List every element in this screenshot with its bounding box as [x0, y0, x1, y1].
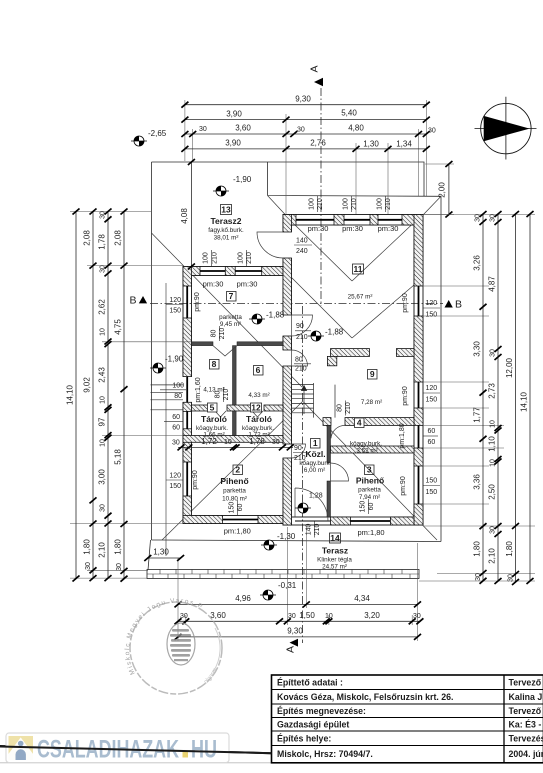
svg-text:-1,90: -1,90	[165, 355, 184, 364]
svg-text:pm:1,60: pm:1,60	[195, 377, 202, 402]
section mark A bottom	[285, 639, 299, 653]
svg-text:1,78: 1,78	[98, 234, 107, 250]
svg-text:150: 150	[228, 502, 235, 514]
svg-text:Pihenő: Pihenő	[356, 476, 384, 486]
svg-text:30: 30	[508, 574, 515, 582]
svg-text:2,00: 2,00	[438, 182, 447, 198]
svg-text:Miskolc, Hrsz: 70494/7.: Miskolc, Hrsz: 70494/7.	[277, 749, 373, 759]
svg-text:6,00 m²: 6,00 m²	[304, 467, 325, 474]
main left wall piers	[283, 215, 292, 233]
svg-text:pm:30: pm:30	[342, 224, 363, 233]
main top wall piers	[283, 215, 296, 226]
svg-text:30: 30	[288, 613, 296, 620]
left wing left wall piers	[183, 267, 192, 287]
svg-text:210: 210	[246, 252, 253, 264]
svg-text:24,57 m²: 24,57 m²	[322, 564, 347, 571]
svg-text:1: 1	[313, 438, 318, 448]
elevation markers	[131, 129, 344, 600]
svg-text:-1,88: -1,88	[266, 311, 285, 320]
bottom extension lines	[178, 527, 418, 641]
left wall misc labels	[160, 377, 202, 402]
room 6 label block	[248, 365, 269, 399]
svg-text:A: A	[309, 65, 321, 72]
pihenő2 top dim row 30/1,72/10/1,78/30	[172, 437, 294, 451]
svg-text:1,30: 1,30	[363, 139, 379, 148]
svg-text:3,00: 3,00	[98, 469, 107, 485]
svg-text:10: 10	[490, 459, 497, 467]
room 11 label block	[348, 264, 373, 301]
svg-text:60: 60	[237, 504, 244, 512]
roof diagonal hips	[152, 196, 442, 541]
svg-text:210: 210	[345, 402, 352, 414]
svg-text:5,18: 5,18	[114, 449, 123, 465]
svg-text:10: 10	[325, 613, 333, 620]
left wing bottom wall piers	[183, 516, 223, 524]
svg-text:pm:90: pm:90	[194, 292, 201, 312]
svg-text:9,30: 9,30	[287, 626, 303, 635]
left extension lines	[70, 212, 191, 579]
svg-text:60: 60	[428, 428, 436, 435]
svg-text:köagy.burk.: köagy.burk.	[350, 441, 382, 448]
right chain 1	[473, 211, 487, 584]
svg-text:150: 150	[426, 478, 438, 485]
door opening gaps erased on main left wall	[182, 232, 293, 458]
svg-text:60: 60	[172, 414, 180, 421]
room 4 label block	[350, 418, 382, 455]
interior stair	[292, 383, 336, 418]
svg-text:30: 30	[490, 214, 497, 222]
svg-text:4,33 m²: 4,33 m²	[248, 392, 269, 399]
rotated window size pairs (wing top wall)	[160, 196, 440, 538]
svg-text:30: 30	[475, 214, 482, 222]
svg-text:1,72 m²: 1,72 m²	[248, 432, 269, 439]
svg-text:Építés helye:: Építés helye:	[277, 734, 331, 744]
svg-text:parketta: parketta	[219, 314, 242, 321]
svg-text:1,77: 1,77	[473, 407, 482, 423]
svg-text:210: 210	[295, 366, 307, 373]
1,30 dim bottom-left step	[144, 548, 184, 562]
svg-text:4,75: 4,75	[114, 319, 123, 335]
svg-text:pm:1,80: pm:1,80	[399, 423, 406, 448]
svg-text:9,45 m²: 9,45 m²	[220, 321, 241, 328]
room 8 label block	[203, 359, 224, 394]
svg-text:3,20: 3,20	[364, 611, 380, 620]
svg-text:90: 90	[296, 323, 304, 330]
bottom dim row 3: 9,30	[175, 626, 422, 640]
svg-text:3,90: 3,90	[226, 109, 242, 118]
svg-text:30: 30	[428, 127, 436, 134]
left chain 4: 2,08/4,75/5,18/1,80/30	[114, 209, 128, 582]
room 3 Pihenő label block	[356, 465, 384, 502]
partition F	[331, 446, 415, 453]
partition D	[323, 418, 331, 426]
terasz2 door arc on main left wall top (140/240)	[257, 232, 283, 258]
bottom dim row 1: 4,96/4,34	[175, 594, 422, 608]
north compass	[475, 97, 537, 160]
svg-text:-1,90: -1,90	[233, 175, 252, 184]
room text blocks	[196, 205, 384, 571]
svg-text:30: 30	[490, 526, 497, 534]
svg-text:Terasz: Terasz	[322, 546, 348, 556]
svg-text:30: 30	[172, 439, 180, 446]
svg-text:pm:90: pm:90	[402, 386, 409, 406]
svg-text:1,50: 1,50	[299, 611, 315, 620]
svg-text:kőagy.burk: kőagy.burk	[299, 460, 330, 467]
svg-text:10,80 m²: 10,80 m²	[222, 496, 247, 503]
svg-text:5: 5	[210, 402, 215, 412]
svg-text:2: 2	[235, 465, 240, 475]
svg-text:10: 10	[100, 396, 107, 404]
svg-text:120: 120	[169, 297, 181, 304]
4,08 vertical dim at terasz2	[180, 159, 195, 270]
svg-text:pm:90: pm:90	[400, 476, 407, 496]
top dim row 4: 3,90/2,76/1,30/1,34	[181, 139, 429, 152]
svg-text:30: 30	[100, 504, 107, 512]
svg-text:30: 30	[199, 126, 207, 133]
svg-text:150: 150	[169, 483, 181, 490]
svg-text:pm:1,80: pm:1,80	[224, 526, 251, 535]
svg-text:pm:90: pm:90	[402, 293, 409, 313]
svg-text:Építés megnevezése:: Építés megnevezése:	[277, 706, 366, 716]
room 1 Közl label block	[299, 438, 330, 474]
room 2 Pihenő label block	[220, 465, 248, 503]
left chain 3: wall faces	[98, 209, 112, 582]
svg-text:3,36: 3,36	[473, 474, 482, 490]
svg-text:97: 97	[98, 417, 107, 426]
svg-text:14,10: 14,10	[520, 391, 529, 412]
svg-text:1,28: 1,28	[309, 493, 323, 500]
svg-text:pm:30: pm:30	[203, 280, 224, 289]
stamp (faint circular seal)	[124, 597, 222, 694]
svg-text:fagy.kő.burk.: fagy.kő.burk.	[208, 227, 244, 234]
exterior steps left	[151, 385, 184, 410]
svg-text:2,10: 2,10	[488, 548, 497, 564]
fireplace stubs	[331, 349, 370, 357]
room 7 label block	[219, 291, 242, 328]
svg-text:140: 140	[305, 523, 312, 535]
svg-text:210: 210	[314, 523, 321, 535]
140/210 rotated pair at közl bottom	[305, 522, 321, 538]
section line A-A (dash-dot vertical with jog at B)	[303, 88, 322, 643]
door labels main left wall	[294, 238, 312, 256]
svg-text:3: 3	[367, 465, 372, 475]
svg-text:-0,31: -0,31	[278, 581, 297, 590]
room 14 Terasz label block	[317, 533, 352, 571]
svg-text:4,96: 4,96	[235, 594, 251, 603]
svg-text:30: 30	[413, 613, 421, 620]
right chain 2	[488, 211, 502, 584]
svg-text:3,26: 3,26	[473, 255, 482, 271]
svg-text:120: 120	[169, 473, 181, 480]
svg-text:100: 100	[172, 382, 184, 389]
svg-text:30: 30	[116, 563, 123, 571]
window glass lines	[187, 220, 418, 521]
svg-text:7,28 m²: 7,28 m²	[361, 399, 382, 406]
svg-text:Tervező: Tervező	[509, 706, 542, 716]
left chain 1: 14,10	[66, 209, 80, 582]
svg-text:30: 30	[180, 613, 188, 620]
svg-text:60: 60	[368, 503, 375, 511]
svg-text:-1,30: -1,30	[277, 532, 296, 541]
svg-text:13: 13	[221, 205, 231, 215]
svg-text:Tervezés: Tervezés	[509, 734, 543, 744]
svg-text:B: B	[455, 299, 462, 311]
svg-text:1,30: 1,30	[153, 548, 169, 557]
svg-text:80: 80	[337, 404, 344, 412]
svg-text:1,80: 1,80	[83, 539, 92, 555]
svg-text:2,76: 2,76	[310, 139, 326, 148]
section mark B right	[445, 299, 463, 311]
svg-text:150: 150	[359, 501, 366, 513]
svg-text:3,60: 3,60	[210, 611, 226, 620]
svg-text:30: 30	[100, 211, 107, 219]
svg-text:10: 10	[100, 328, 107, 336]
svg-text:pm:30: pm:30	[237, 280, 258, 289]
svg-text:Tároló: Tároló	[246, 414, 272, 424]
svg-text:30: 30	[297, 127, 305, 134]
svg-text:2,43: 2,43	[98, 367, 107, 383]
svg-text:9,02: 9,02	[83, 377, 92, 393]
svg-text:2,73: 2,73	[488, 383, 497, 399]
left chain 2: 2,08/9,02/1,80/30	[83, 209, 97, 582]
svg-text:30: 30	[475, 573, 482, 581]
svg-text:Kalina J: Kalina J	[509, 692, 543, 702]
left wall window labels 120/150	[166, 292, 201, 314]
svg-text:9,30: 9,30	[295, 95, 311, 104]
page bottom rule	[0, 746, 272, 753]
svg-text:60: 60	[428, 439, 436, 446]
svg-text:11: 11	[354, 264, 363, 274]
svg-text:140: 140	[296, 238, 308, 245]
150/60 rotated pairs bottom windows	[228, 500, 244, 515]
svg-text:30: 30	[490, 349, 497, 357]
svg-text:30: 30	[100, 265, 107, 273]
svg-text:pm:30: pm:30	[378, 224, 399, 233]
svg-text:3,30: 3,30	[473, 341, 482, 357]
svg-text:9: 9	[370, 369, 375, 379]
room 9 label block	[361, 369, 382, 406]
80/210 rotated pairs interior doors	[211, 326, 227, 341]
wall outlines	[183, 215, 423, 526]
svg-text:7,94 m²: 7,94 m²	[359, 494, 380, 501]
svg-text:2004. jún: 2004. jún	[509, 749, 543, 759]
svg-text:60: 60	[172, 424, 180, 431]
svg-text:pm:30: pm:30	[308, 224, 329, 233]
svg-text:Tároló: Tároló	[201, 414, 227, 424]
svg-text:120: 120	[426, 385, 438, 392]
svg-text:2,08: 2,08	[83, 230, 92, 246]
top dim row 1: 9,30	[181, 95, 429, 108]
svg-text:3,90: 3,90	[225, 139, 241, 148]
svg-text:parketta: parketta	[358, 487, 381, 494]
svg-text:pm:90: pm:90	[192, 470, 199, 490]
svg-text:A: A	[285, 646, 297, 653]
svg-text:7: 7	[229, 291, 234, 301]
svg-text:Terasz2: Terasz2	[210, 216, 241, 226]
room 5 Tároló label block	[196, 402, 228, 438]
room 13 Terasz2 label block	[208, 205, 244, 242]
svg-text:100: 100	[309, 198, 316, 210]
right extension lines	[419, 215, 535, 582]
svg-text:8: 8	[212, 359, 217, 369]
svg-text:Közl.: Közl.	[305, 449, 325, 459]
svg-text:150: 150	[426, 397, 438, 404]
svg-text:90: 90	[294, 445, 302, 452]
svg-text:1,10: 1,10	[488, 436, 497, 452]
door swing arcs	[213, 315, 349, 521]
svg-text:10: 10	[100, 439, 107, 447]
bottom dim row 2	[175, 611, 424, 624]
svg-text:6: 6	[256, 365, 261, 375]
svg-text:1,66 m²: 1,66 m²	[203, 432, 224, 439]
svg-text:1,80: 1,80	[505, 541, 514, 557]
svg-text:30: 30	[272, 439, 280, 446]
svg-text:210: 210	[385, 198, 392, 210]
svg-text:14,10: 14,10	[66, 384, 75, 405]
svg-text:parketta: parketta	[223, 488, 246, 495]
svg-text:4,08: 4,08	[180, 208, 189, 224]
svg-text:1,80: 1,80	[473, 541, 482, 557]
right wall window labels	[402, 293, 440, 318]
svg-text:80: 80	[295, 357, 303, 364]
section line B-B (dash-dot horizontal)	[150, 303, 443, 305]
top dim row 3: 30/3,60/30/4,80/30	[181, 124, 435, 137]
title block table	[272, 675, 543, 763]
main right wall piers	[414, 215, 423, 287]
black rule over watermark	[0, 747, 272, 754]
brick retaining strip	[147, 570, 419, 579]
svg-text:Gazdasági épület: Gazdasági épület	[277, 720, 349, 730]
svg-text:4,34: 4,34	[354, 594, 370, 603]
svg-text:Kovács Géza, Miskolc, Felsőruz: Kovács Géza, Miskolc, Felsőruzsin krt. 2…	[277, 692, 454, 702]
svg-text:100: 100	[203, 252, 210, 264]
svg-text:210: 210	[296, 334, 308, 341]
svg-text:3,52 m²: 3,52 m²	[356, 448, 377, 455]
svg-text:Pihenő: Pihenő	[220, 476, 248, 486]
svg-text:150: 150	[426, 312, 438, 319]
svg-text:HU: HU	[191, 736, 217, 764]
svg-text:10: 10	[224, 439, 232, 446]
svg-text:2,08: 2,08	[114, 230, 123, 246]
svg-text:240: 240	[296, 248, 308, 255]
svg-text:120: 120	[426, 300, 438, 307]
svg-text:1,34: 1,34	[396, 139, 412, 148]
svg-text:100: 100	[237, 252, 244, 264]
svg-text:B: B	[130, 295, 137, 307]
svg-text:Tervező: Tervező	[509, 678, 542, 688]
top dim row 2: 3,90 / 5,40	[181, 109, 429, 123]
svg-text:-1,88: -1,88	[325, 328, 344, 337]
svg-text:Klinker tégla: Klinker tégla	[317, 557, 352, 564]
section mark B left	[130, 295, 148, 307]
svg-text:4,80: 4,80	[348, 124, 364, 133]
svg-text:pm:1,80: pm:1,80	[357, 528, 384, 537]
svg-text:4,13 m²: 4,13 m²	[203, 387, 224, 394]
watermark csaladihazak.hu	[6, 733, 229, 764]
right chain 3: 12,00/1,80/30	[505, 211, 519, 585]
svg-text:14: 14	[330, 533, 340, 543]
svg-text:80: 80	[211, 330, 218, 338]
interior partition B (taroló top)	[192, 405, 216, 411]
right chain 4: 14,10	[520, 211, 534, 584]
svg-text:210: 210	[219, 328, 226, 340]
svg-text:3,60: 3,60	[235, 124, 251, 133]
svg-text:25,67 m²: 25,67 m²	[348, 294, 373, 301]
eaves outline	[148, 162, 441, 570]
svg-text:4,87: 4,87	[488, 276, 497, 292]
svg-text:150: 150	[426, 489, 438, 496]
svg-text:150: 150	[169, 308, 181, 315]
main bottom wall piers	[331, 517, 351, 525]
thin solid partitions	[192, 342, 331, 517]
svg-text:Ka: É3 -: Ka: É3 -	[509, 720, 542, 730]
svg-text:210: 210	[351, 198, 358, 210]
svg-text:80: 80	[174, 393, 182, 400]
svg-text:4: 4	[357, 418, 362, 428]
svg-text:2,10: 2,10	[98, 542, 107, 558]
svg-text:10: 10	[490, 420, 497, 428]
interior partition C (taroló bottom)	[183, 436, 283, 443]
hatched piers: left wing top wall	[183, 215, 423, 526]
svg-text:210: 210	[211, 252, 218, 264]
extension lines top	[185, 100, 454, 215]
svg-text:12,00: 12,00	[505, 357, 514, 378]
svg-text:12: 12	[251, 402, 261, 412]
svg-text:2,62: 2,62	[98, 299, 107, 315]
svg-text:30: 30	[85, 562, 92, 570]
svg-text:2,50: 2,50	[488, 484, 497, 500]
svg-text:100: 100	[343, 198, 350, 210]
svg-text:100: 100	[377, 198, 384, 210]
rotated pairs (main top wall)	[309, 196, 325, 212]
svg-text:38,01 m²: 38,01 m²	[214, 235, 239, 242]
svg-text:210: 210	[317, 198, 324, 210]
2,00 vertical dim top right	[438, 161, 453, 218]
section mark A top	[309, 65, 324, 86]
svg-text:5,40: 5,40	[341, 109, 357, 118]
svg-text:1,80: 1,80	[114, 539, 123, 555]
room 12 Tároló label block	[242, 402, 274, 438]
svg-text:-2,65: -2,65	[148, 129, 167, 138]
svg-text:Építtető adatai :: Építtető adatai :	[277, 678, 343, 688]
